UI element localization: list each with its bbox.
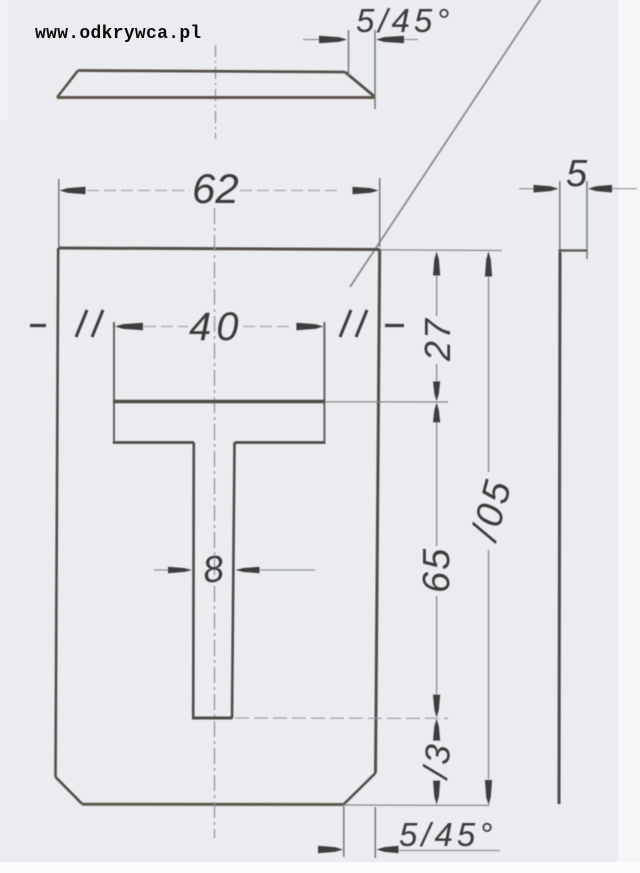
top view centerline: [215, 45, 217, 139]
hole dimension 8: [154, 569, 170, 571]
dimension 62: [58, 179, 60, 247]
svg-text:5/45°: 5/45°: [356, 2, 453, 39]
dimension column 105: [485, 252, 492, 277]
front plate outline: [59, 248, 380, 250]
top view outline: [78, 71, 345, 73]
svg-text:65: 65: [416, 547, 458, 593]
dimension 5/45 top lines: [303, 39, 320, 41]
T slot stem: [192, 443, 195, 719]
svg-text:5/45°: 5/45°: [399, 816, 496, 853]
dimension row 11 40 11: [30, 324, 46, 327]
T slot left extension: [113, 322, 115, 442]
T slot crossbar top: [113, 400, 325, 403]
svg-text:www.odkrywca.pl: www.odkrywca.pl: [35, 24, 202, 44]
svg-text:/3: /3: [416, 739, 459, 782]
svg-text:5: 5: [566, 153, 588, 195]
svg-text:27: 27: [417, 317, 458, 362]
diagonal reference line: [350, 0, 542, 287]
dimension column 27 65 13: [433, 252, 440, 276]
front view centerline: [214, 208, 216, 838]
svg-text:62: 62: [192, 165, 239, 212]
right extension lines: [380, 249, 502, 252]
dimension 5/45 bottom: [343, 806, 345, 857]
T slot crossbar bottom: [113, 441, 194, 444]
svg-text:40: 40: [189, 305, 244, 349]
T slot right extension: [323, 322, 325, 442]
